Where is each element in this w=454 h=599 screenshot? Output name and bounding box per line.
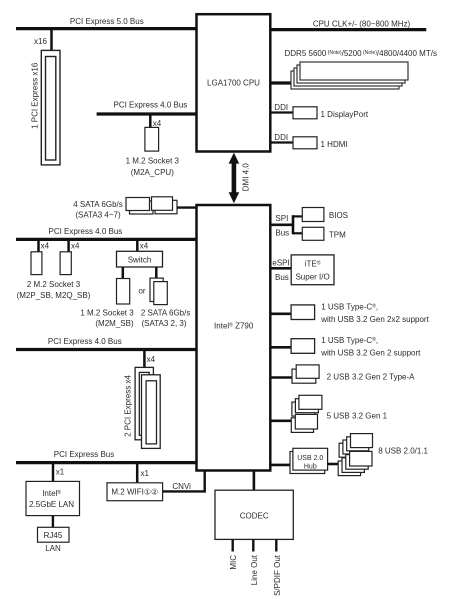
wire hub to 8 USB (328, 463, 340, 466)
svg-text:M.2 WIFI①②: M.2 WIFI①② (111, 488, 158, 497)
slot 2 PCI Express x4 (123, 367, 160, 448)
svg-text:PCI Express 4.0 Bus: PCI Express 4.0 Bus (113, 101, 187, 110)
iTE Super I/O U3 (291, 255, 334, 285)
wire PCI Express 4.0 Bus (CPU) (97, 101, 197, 114)
connector M2M_SB socket (80, 279, 134, 329)
connector M2Q_SB socket (17, 252, 91, 300)
svg-text:S/PDIF Out: S/PDIF Out (273, 554, 282, 596)
svg-text:(SATA3 4~7): (SATA3 4~7) (75, 211, 121, 220)
wire drop x4 M2A (150, 114, 162, 128)
svg-text:x4: x4 (140, 241, 149, 250)
CODEC U6 (215, 490, 293, 539)
wire switch to M2M (122, 267, 125, 279)
svg-text:x16: x16 (34, 37, 47, 46)
svg-text:x1: x1 (141, 469, 150, 478)
svg-text:(M2M_SB): (M2M_SB) (95, 319, 134, 328)
wire SPI bus bracket (270, 214, 302, 237)
svg-text:x4: x4 (153, 119, 162, 128)
svg-text:2.5GbE LAN: 2.5GbE LAN (29, 500, 74, 509)
wire drop x1 WIFI (137, 463, 149, 483)
svg-text:2 USB 3.2 Gen 2 Type-A: 2 USB 3.2 Gen 2 Type-A (327, 373, 416, 382)
wire drop x4 slots (144, 350, 155, 368)
svg-text:1 M.2 Socket 3: 1 M.2 Socket 3 (126, 157, 180, 166)
svg-text:(M2P_SB, M2Q_SB): (M2P_SB, M2Q_SB) (17, 291, 91, 300)
svg-text:eSPI: eSPI (272, 258, 289, 267)
port 5 USB 3.2 Gen 1 stack (291, 395, 387, 432)
wire to USB hub (270, 464, 291, 467)
wire eSPI bus (270, 258, 291, 281)
wire USB-C gen2x2 (270, 312, 291, 315)
svg-text:CODEC: CODEC (240, 511, 269, 520)
svg-text:Line Out: Line Out (250, 554, 259, 585)
DMI 4.0 bus arrow (229, 153, 251, 204)
wire Line Out (252, 539, 254, 551)
svg-text:x4: x4 (41, 241, 50, 250)
wire LAN to RJ45 (52, 516, 54, 528)
svg-text:DMI 4.0: DMI 4.0 (242, 163, 251, 192)
wire PCI Express Bus (16, 450, 197, 463)
svg-text:USB 2.0: USB 2.0 (297, 455, 323, 462)
TPM chip (302, 227, 346, 240)
svg-text:Hub: Hub (304, 463, 317, 470)
wire switch to SATA23 (155, 267, 158, 278)
svg-text:x1: x1 (56, 468, 65, 477)
wire drop x1 LAN (53, 463, 65, 482)
wire USB 3.2 gen1 (270, 419, 293, 422)
svg-text:or: or (138, 286, 145, 295)
connector M2P_SB socket (31, 252, 42, 275)
svg-text:with USB 3.2 Gen 2x2 support: with USB 3.2 Gen 2x2 support (320, 315, 429, 324)
svg-text:Intel® Z790: Intel® Z790 (214, 322, 254, 331)
svg-text:2 PCI Express x4: 2 PCI Express x4 (123, 375, 132, 437)
wire PCI Express 5.0 Bus (16, 17, 197, 29)
svg-text:BIOS: BIOS (329, 211, 348, 220)
wire DDI HDMI (270, 133, 293, 142)
svg-text:with USB 3.2 Gen 2 support: with USB 3.2 Gen 2 support (320, 348, 421, 357)
svg-text:SPI: SPI (275, 214, 288, 223)
module M.2 WIFI (107, 483, 163, 501)
svg-text:2 M.2 Socket 3: 2 M.2 Socket 3 (27, 280, 81, 289)
wire drop x4 M2P (39, 239, 50, 251)
connector 2 SATA 6Gb/s (SATA3 2,3) (141, 278, 191, 328)
connector 4 SATA 6Gb/s stack (73, 197, 177, 220)
svg-text:TPM: TPM (329, 230, 346, 239)
svg-text:PCI Express 5.0 Bus: PCI Express 5.0 Bus (70, 17, 144, 26)
port 2 USB 3.2 Gen 2 Type-A stack (292, 365, 415, 383)
svg-text:1 PCI Express x16: 1 PCI Express x16 (31, 62, 40, 129)
BIOS chip (302, 208, 348, 222)
wire PCI Express 4.0 Bus (chipset lower) (16, 337, 197, 350)
wire MIC (231, 539, 233, 551)
port 8 USB 2.0/1.1 stack (338, 434, 428, 476)
switch U5 (117, 251, 163, 267)
port DisplayPort (293, 107, 369, 119)
wire chipset to CODEC (253, 471, 256, 491)
svg-text:1 USB Type-C®,: 1 USB Type-C®, (321, 336, 378, 345)
wire S/PDIF Out (275, 539, 277, 551)
wire drop x4 switch (137, 239, 149, 251)
svg-text:Super I/O: Super I/O (295, 272, 329, 281)
wire drop x4 M2Q (69, 239, 80, 251)
USB 2.0 Hub U4 (290, 448, 328, 473)
svg-text:LGA1700 CPU: LGA1700 CPU (207, 79, 260, 88)
svg-text:RJ45: RJ45 (44, 531, 63, 540)
svg-text:5 USB 3.2 Gen 1: 5 USB 3.2 Gen 1 (327, 411, 388, 420)
port HDMI (293, 137, 348, 149)
svg-text:DDR5 5600 (Note)/5200 (Note)/4: DDR5 5600 (Note)/5200 (Note)/4800/4400 M… (285, 49, 437, 58)
wire USB 3.2 gen2 type-A (270, 376, 294, 379)
port RJ45 (38, 527, 70, 542)
svg-text:2 SATA 6Gb/s: 2 SATA 6Gb/s (141, 309, 191, 318)
svg-text:x4: x4 (71, 241, 80, 250)
svg-text:PCI Express 4.0 Bus: PCI Express 4.0 Bus (48, 337, 122, 346)
svg-text:1 DisplayPort: 1 DisplayPort (321, 110, 369, 119)
wire USB-C gen2 (270, 346, 291, 349)
svg-text:1 HDMI: 1 HDMI (321, 140, 348, 149)
svg-text:CPU CLK+/- (80~800 MHz): CPU CLK+/- (80~800 MHz) (313, 19, 411, 28)
svg-text:PCI Express Bus: PCI Express Bus (54, 450, 114, 459)
svg-text:MIC: MIC (229, 555, 238, 570)
svg-text:1 M.2 Socket 3: 1 M.2 Socket 3 (80, 309, 134, 318)
wire PCI Express 4.0 Bus (chipset upper) (16, 227, 197, 239)
svg-text:1 USB Type-C®,: 1 USB Type-C®, (321, 302, 378, 311)
svg-text:PCI Express 4.0 Bus: PCI Express 4.0 Bus (48, 227, 122, 236)
svg-text:8 USB 2.0/1.1: 8 USB 2.0/1.1 (378, 446, 428, 455)
connector M2A_CPU socket (126, 127, 180, 177)
wire drop x16 (34, 29, 52, 51)
svg-text:DDI: DDI (274, 133, 288, 142)
wire CNVi (163, 471, 205, 493)
svg-text:Bus: Bus (275, 228, 289, 237)
chipset U2 Intel Z790 (197, 205, 271, 471)
CPU U1 LGA1700 (197, 14, 271, 151)
wire CPU CLK (270, 19, 426, 29)
svg-text:CNVi: CNVi (172, 482, 191, 491)
wire to DDR5 (270, 81, 293, 84)
svg-text:(M2A_CPU): (M2A_CPU) (131, 168, 174, 177)
svg-text:4 SATA 6Gb/s: 4 SATA 6Gb/s (73, 200, 123, 209)
slot J1 PCI Express x16 (31, 50, 60, 164)
port USB Type-C 2x2 (291, 302, 429, 323)
svg-text:(SATA3 2, 3): (SATA3 2, 3) (141, 319, 186, 328)
LAN controller Intel 2.5GbE (26, 481, 80, 515)
svg-text:Bus: Bus (275, 273, 289, 282)
svg-text:DDI: DDI (274, 103, 288, 112)
svg-text:LAN: LAN (45, 544, 61, 553)
wire DDI DisplayPort (270, 103, 293, 112)
memory DIMM stack (291, 62, 408, 89)
port USB Type-C gen2 (291, 336, 421, 357)
svg-text:Switch: Switch (128, 256, 152, 265)
wire SATA to chipset (177, 206, 197, 208)
svg-text:x4: x4 (147, 355, 156, 364)
